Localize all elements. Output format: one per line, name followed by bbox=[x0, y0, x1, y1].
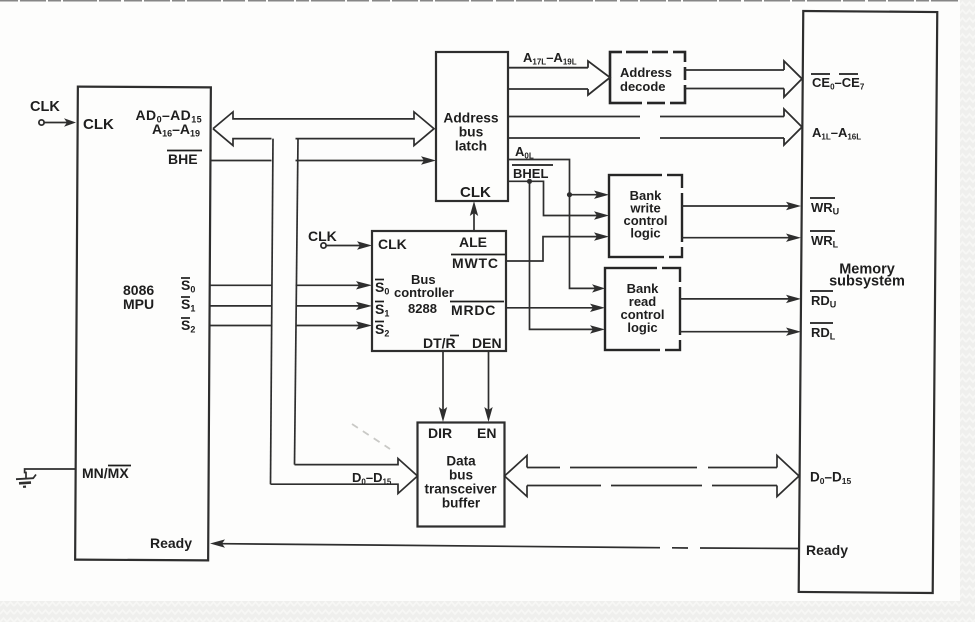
wire RDu (bank read to memory) bbox=[680, 295, 801, 303]
svg-text:DEN: DEN bbox=[472, 335, 502, 351]
wire DT/R (8288 to transceiver DIR) bbox=[439, 351, 447, 422]
node CLK (external left) bbox=[30, 99, 60, 125]
block Address decode bbox=[610, 50, 687, 106]
svg-text:ALE: ALE bbox=[459, 234, 487, 250]
svg-text:logic: logic bbox=[627, 320, 657, 335]
pin label BHE (with overline) bbox=[167, 151, 202, 168]
node CLK (external, 8288) bbox=[308, 228, 337, 248]
label Bank write control logic bbox=[623, 188, 667, 241]
block Bank read control logic bbox=[605, 266, 682, 353]
block Address bus latch bbox=[436, 52, 508, 201]
svg-text:CLK: CLK bbox=[378, 236, 407, 252]
svg-text:buffer: buffer bbox=[442, 496, 481, 511]
bus arrow latch to decode bbox=[508, 61, 610, 95]
bus arrow D0-D15 into transceiver bbox=[271, 459, 418, 494]
svg-text:CE0–CE7: CE0–CE7 bbox=[812, 75, 865, 92]
svg-text:MPU: MPU bbox=[123, 296, 154, 312]
net label BHEL (with overline) bbox=[512, 165, 553, 181]
wire S0 (MPU to 8288) bbox=[210, 281, 373, 289]
wire BHEL (latch out) bbox=[508, 181, 609, 219]
svg-text:decode: decode bbox=[620, 79, 666, 94]
pin label RDu (with overline) bbox=[810, 291, 836, 310]
wire Ready (memory to MPU) bbox=[210, 539, 798, 548]
svg-text:MRDC: MRDC bbox=[451, 302, 496, 318]
svg-text:logic: logic bbox=[630, 226, 660, 241]
block Memory subsystem bbox=[799, 11, 938, 593]
pin label S2 (8288) bbox=[375, 321, 389, 339]
svg-text:controller: controller bbox=[394, 285, 454, 300]
svg-text:subsystem: subsystem bbox=[829, 274, 905, 290]
wire MN/MX to ground bbox=[25, 469, 76, 479]
svg-text:bus: bus bbox=[449, 468, 473, 483]
pin label S0 (MPU) bbox=[181, 277, 195, 295]
svg-text:Address: Address bbox=[620, 65, 672, 80]
svg-text:DT/R: DT/R bbox=[423, 335, 456, 351]
wire MRDC (8288 to bank read in2) bbox=[506, 304, 605, 312]
svg-text:DIR: DIR bbox=[428, 425, 452, 441]
pin label S0 (8288) bbox=[375, 279, 389, 297]
wire S1 (MPU to 8288) bbox=[210, 302, 373, 310]
ground bbox=[16, 475, 36, 487]
pin label MWTC (with overline) bbox=[451, 255, 505, 272]
svg-text:bus: bus bbox=[459, 125, 484, 140]
svg-text:Ready: Ready bbox=[806, 542, 848, 558]
svg-text:CLK: CLK bbox=[308, 228, 337, 244]
svg-text:EN: EN bbox=[477, 425, 496, 441]
pin label WRl (with overline) bbox=[810, 231, 839, 250]
block 8086 MPU bbox=[75, 87, 211, 561]
bus arrow A1L-A16L (latch to memory) bbox=[508, 109, 802, 145]
svg-text:Ready: Ready bbox=[150, 535, 192, 551]
wire DEN (8288 to transceiver EN) bbox=[484, 351, 492, 422]
svg-text:MN/MX: MN/MX bbox=[82, 465, 129, 481]
block Bus controller 8288 bbox=[372, 231, 506, 351]
wire BHE (MPU to latch) bbox=[210, 156, 436, 164]
wire CLK to MPU bbox=[44, 118, 76, 126]
label 8086 MPU bbox=[123, 282, 154, 312]
label Memory subsystem bbox=[829, 262, 905, 290]
bottom textured band bbox=[0, 601, 975, 622]
svg-text:BHEL: BHEL bbox=[513, 166, 548, 181]
svg-text:CLK: CLK bbox=[460, 184, 491, 201]
svg-text:transceiver: transceiver bbox=[424, 482, 497, 497]
pin label MN/MX (with overline on MX) bbox=[82, 465, 131, 481]
wire WRu (bank write to memory) bbox=[682, 202, 801, 210]
wire S2 (MPU to 8288) bbox=[210, 321, 373, 329]
svg-text:8288: 8288 bbox=[408, 301, 437, 316]
wire BHEL to bank read in3 bbox=[530, 181, 606, 333]
pin label WRu (with overline) bbox=[810, 198, 839, 217]
top page edge line bbox=[0, 0, 958, 2]
bus arrow D0-D15 (transceiver to memory, bidirectional) bbox=[505, 456, 800, 497]
wire CLK to 8288 bbox=[326, 241, 372, 249]
pin label S2 (MPU) bbox=[181, 317, 195, 335]
wire A0L (latch to bank logic) bbox=[508, 160, 605, 293]
label Address decode bbox=[620, 65, 672, 94]
svg-text:MWTC: MWTC bbox=[452, 255, 499, 271]
label Bank read control logic bbox=[620, 281, 664, 335]
label Bus controller 8288 bbox=[394, 272, 454, 316]
svg-text:Data: Data bbox=[446, 454, 476, 469]
svg-text:latch: latch bbox=[455, 139, 487, 154]
junction BHEL bbox=[527, 179, 532, 184]
pin label MRDC (with overline) bbox=[450, 302, 504, 319]
pin label DT/R (with overline on R) bbox=[423, 335, 459, 351]
wire data bus channel left vertical bbox=[271, 139, 274, 485]
wire MWTC (8288 to bank write in3) bbox=[506, 232, 609, 261]
svg-text:CLK: CLK bbox=[83, 116, 114, 133]
bus arrow AD0-AD15 / A16-A19 (MPU to latch, bidirectional, with T stem) bbox=[213, 112, 434, 146]
bus arrow decode to memory CE bbox=[685, 61, 802, 97]
label Address bus latch bbox=[443, 111, 499, 154]
wire data bus channel right vertical bbox=[295, 139, 299, 465]
scan scratch artifact bbox=[352, 424, 390, 449]
svg-text:CLK: CLK bbox=[30, 99, 60, 115]
pin label S1 (MPU) bbox=[181, 296, 195, 314]
label Data bus transceiver buffer bbox=[424, 454, 497, 511]
pin label S1 (8288) bbox=[375, 301, 389, 319]
block Bank write control logic bbox=[609, 173, 684, 260]
pin label RDl (with overline) bbox=[810, 323, 836, 342]
wire A0L to bank write in1 bbox=[570, 191, 610, 199]
right textured band bbox=[960, 0, 975, 622]
wire ALE (8288 to latch) bbox=[470, 201, 478, 231]
junction A0L bbox=[567, 192, 572, 197]
svg-text:Address: Address bbox=[443, 111, 499, 126]
svg-text:BHE: BHE bbox=[168, 151, 198, 167]
pin label CE0-CE7 (with overlines) bbox=[811, 74, 865, 92]
wire RDl (bank read to memory) bbox=[680, 328, 801, 336]
block Data bus transceiver buffer bbox=[418, 423, 505, 527]
wire WRl (bank write to memory) bbox=[682, 234, 801, 242]
